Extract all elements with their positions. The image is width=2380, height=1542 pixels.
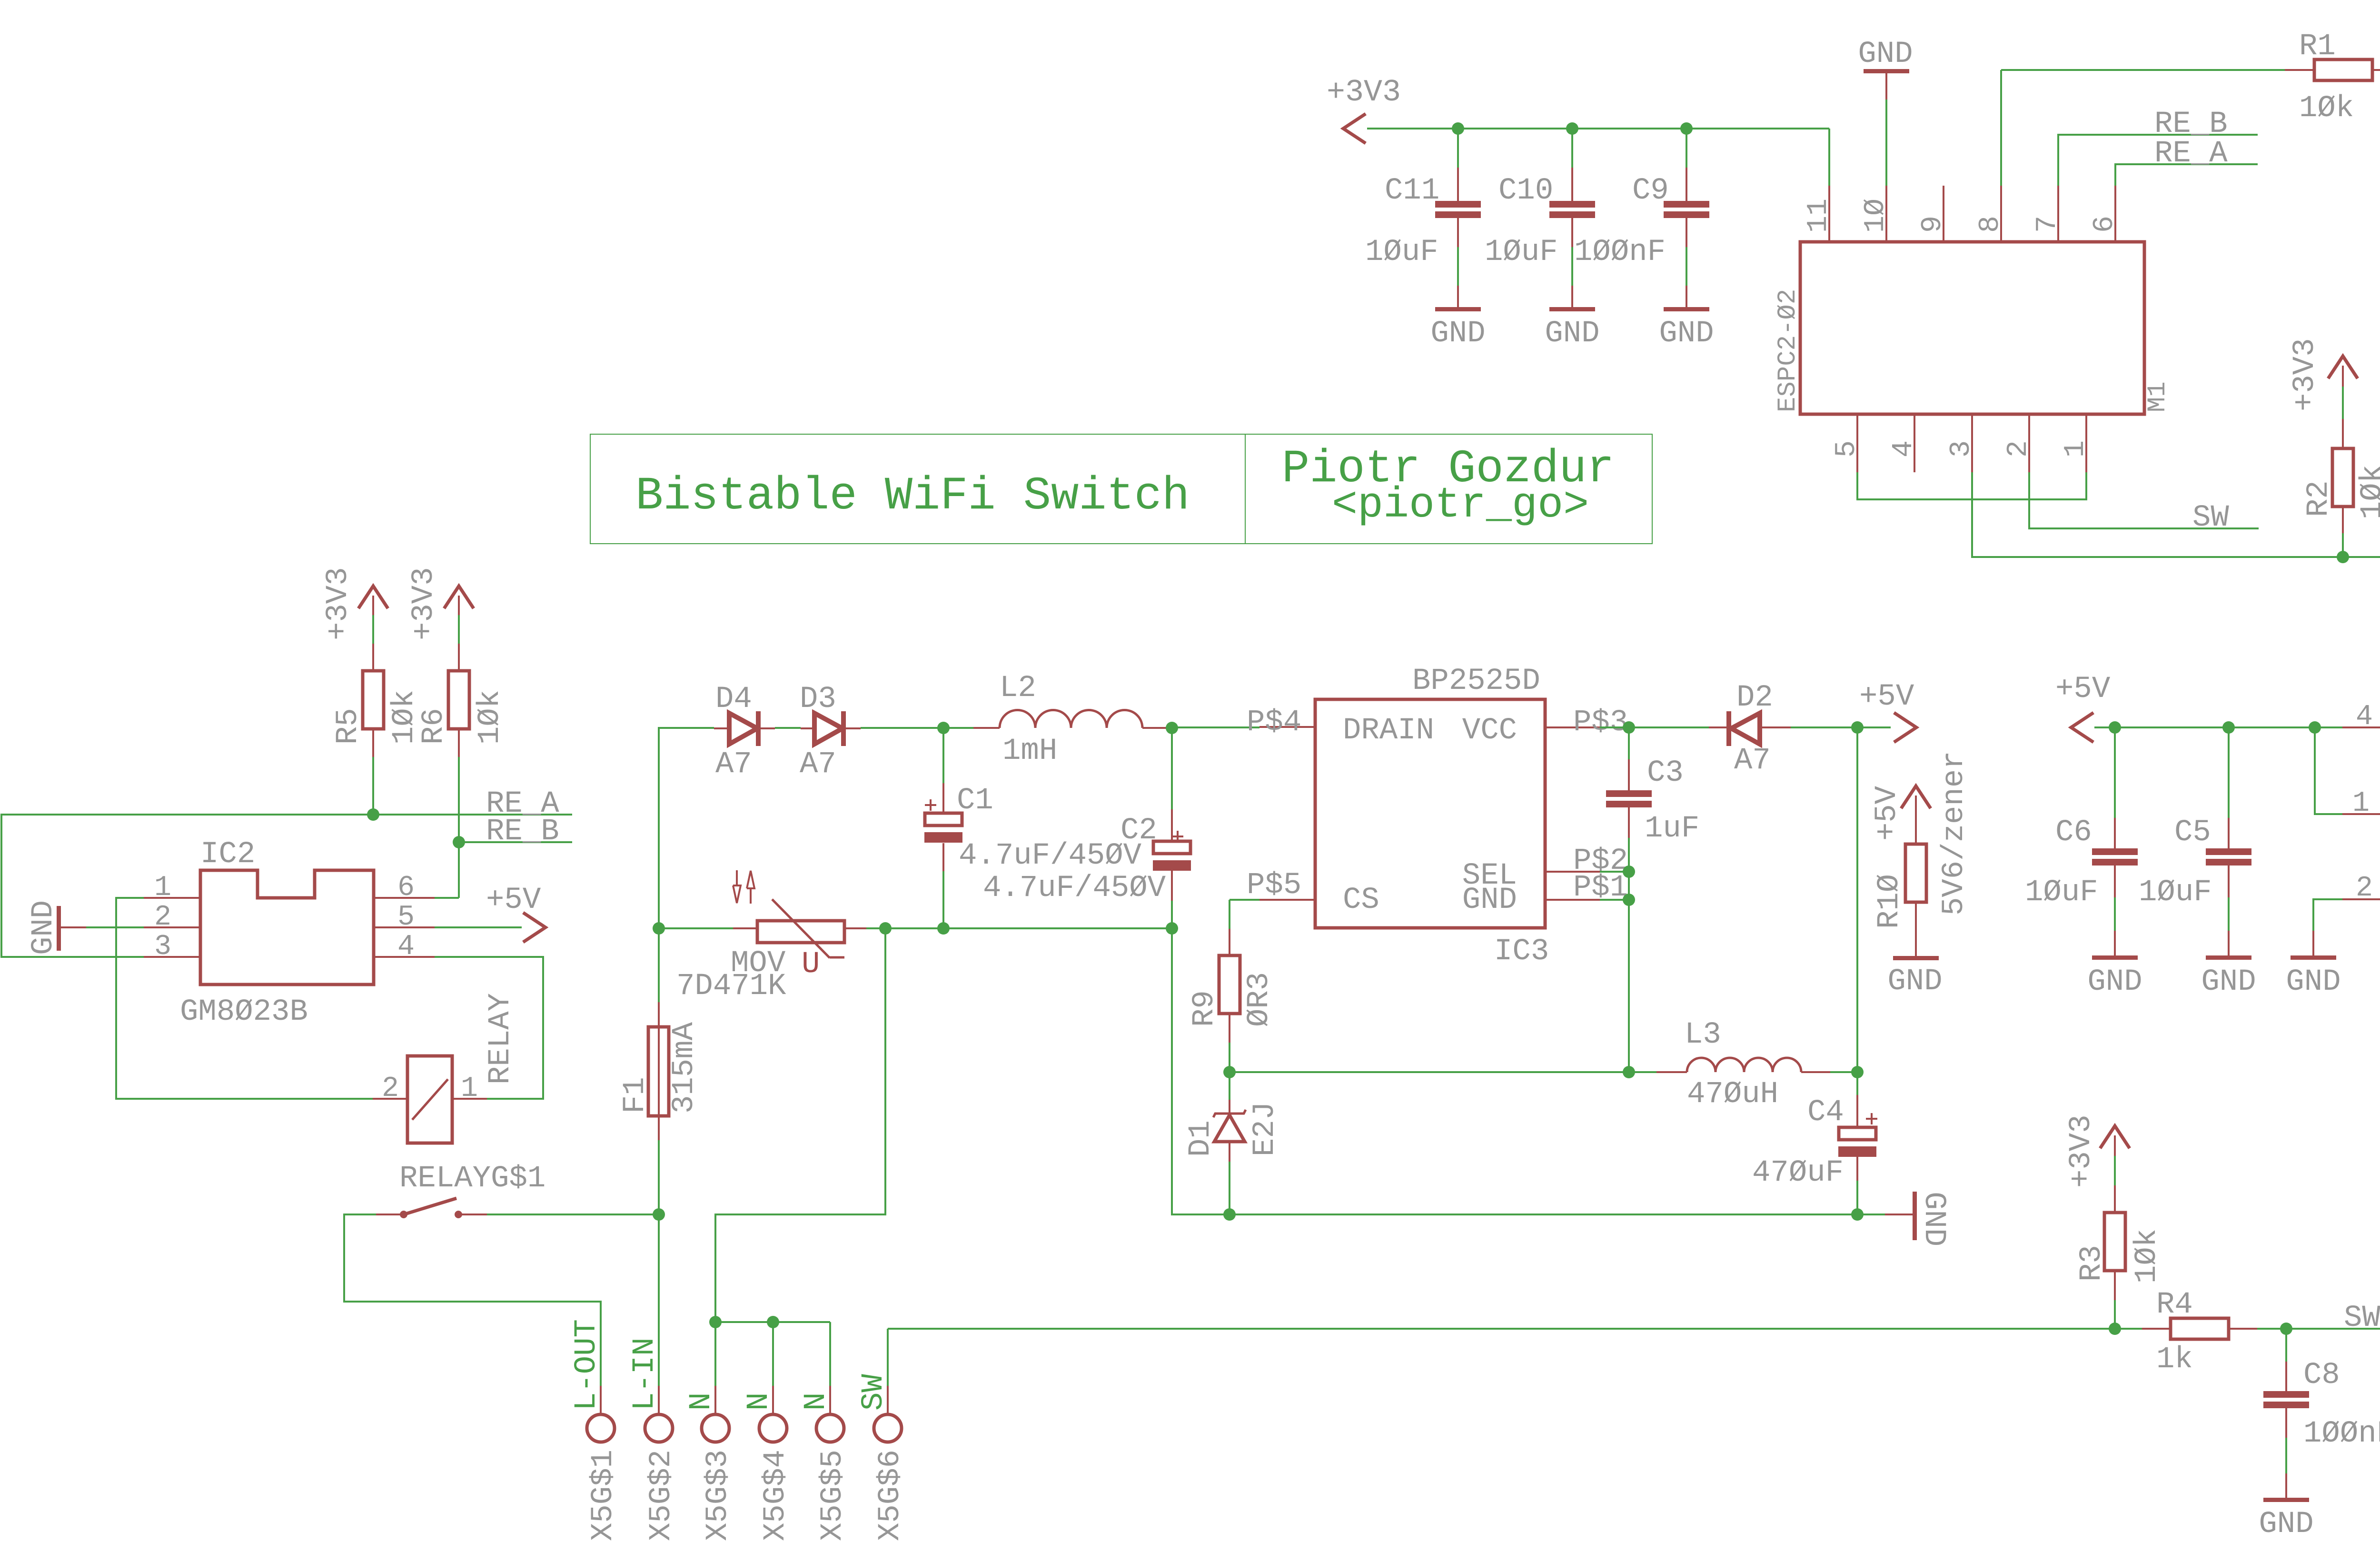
- svg-text:GND: GND: [1545, 317, 1599, 351]
- wire relay contact to F1: [487, 1214, 659, 1215]
- capacitor C10: [1485, 168, 1595, 269]
- wire CS to R9: [1230, 900, 1259, 929]
- pin 10 of M1: [1860, 186, 1892, 242]
- svg-text:1: 1: [461, 1073, 478, 1105]
- ground at IC1 pin2: [2286, 931, 2340, 999]
- svg-text:DRAIN: DRAIN: [1343, 714, 1434, 748]
- label RE_A: [486, 787, 559, 821]
- wire pin11 to +3V3 rail: [1828, 129, 1830, 186]
- wire: [86, 926, 144, 928]
- pin 11 of M1: [1803, 186, 1835, 242]
- label SW: [2344, 1301, 2380, 1335]
- svg-text:+3V3: +3V3: [407, 567, 441, 640]
- svg-text:C9: C9: [1632, 174, 1669, 208]
- ground under R10: [1887, 956, 1942, 999]
- wire: [1830, 1071, 1857, 1073]
- wire SHDN to rail: [2315, 727, 2342, 814]
- ground at IC2 pin2: [27, 900, 86, 955]
- svg-text:<piotr_go>: <piotr_go>: [1332, 481, 1589, 530]
- pin 8 of M1: [1974, 186, 2007, 242]
- wire: [2342, 387, 2344, 419]
- power symbol +3V3 above R3: [2064, 1114, 2130, 1188]
- module M1 ESPC2-02 body: [1774, 242, 2172, 414]
- wire: [1571, 129, 1573, 168]
- svg-text:1ØØnF: 1ØØnF: [1574, 235, 1666, 269]
- junction N1: [709, 1316, 722, 1328]
- pin 2 of M1: [2003, 414, 2035, 472]
- wire: [1457, 247, 1459, 286]
- junction C1 bottom: [937, 922, 950, 935]
- capacitor C1: [924, 728, 1142, 873]
- svg-text:7D471K: 7D471K: [676, 969, 786, 1004]
- svg-text:5: 5: [397, 901, 415, 934]
- svg-text:1: 1: [154, 872, 171, 904]
- svg-text:3: 3: [1945, 440, 1978, 458]
- svg-text:11: 11: [1803, 199, 1835, 233]
- svg-text:R5: R5: [331, 708, 366, 745]
- diode D4: [714, 682, 775, 782]
- wire pin2 to ground: [2313, 899, 2342, 931]
- svg-text:D2: D2: [1736, 681, 1773, 715]
- capacitor C4 470uF: [1752, 1072, 1877, 1190]
- svg-text:1ØuF: 1ØuF: [2025, 875, 2098, 910]
- svg-text:R4: R4: [2156, 1288, 2193, 1322]
- junction at C11: [1452, 122, 1464, 135]
- wire: [2114, 1156, 2116, 1185]
- svg-text:2: 2: [2003, 440, 2035, 458]
- wire GND return line: [1172, 928, 1885, 1214]
- pin 2 of IC2: [144, 901, 200, 934]
- capacitor C6 10uF: [2025, 727, 2138, 910]
- svg-text:X5G$3: X5G$3: [701, 1450, 735, 1541]
- svg-text:CS: CS: [1343, 883, 1379, 917]
- svg-text:L-OUT: L-OUT: [570, 1319, 604, 1411]
- svg-text:SW: SW: [2192, 501, 2229, 535]
- ground: [2087, 931, 2142, 999]
- power symbol +5V: [486, 883, 545, 942]
- svg-text:1mH: 1mH: [1002, 734, 1057, 768]
- junction R3 bottom: [2109, 1323, 2121, 1335]
- svg-text:1Ø: 1Ø: [1860, 199, 1892, 233]
- wire R1 rail: [2001, 69, 2285, 71]
- svg-text:C4: C4: [1807, 1095, 1844, 1130]
- wire: [861, 727, 973, 729]
- svg-text:3: 3: [154, 931, 171, 963]
- pin 6 of M1: [2089, 186, 2121, 242]
- diode D1 zener E2J: [1184, 1072, 1282, 1162]
- svg-text:+3V3: +3V3: [2288, 338, 2322, 411]
- junction SHDN drop: [2309, 721, 2321, 734]
- pin 1 SHDN: [2342, 787, 2380, 820]
- junction C3 top: [1623, 721, 1635, 734]
- wire: [372, 615, 374, 644]
- pin P$4 DRAIN: [1247, 706, 1315, 740]
- svg-text:1Øk: 1Øk: [2299, 91, 2354, 126]
- svg-text:6: 6: [2089, 216, 2121, 233]
- junction C2 top / P$4 node: [1166, 722, 1178, 734]
- svg-text:R9: R9: [1188, 990, 1222, 1027]
- author handle piotr_go: [1332, 481, 1589, 530]
- svg-text:GND: GND: [27, 900, 61, 955]
- svg-text:RELAY: RELAY: [484, 993, 518, 1084]
- wire pin5 to +5V: [435, 926, 522, 928]
- svg-text:GND: GND: [2087, 965, 2142, 999]
- svg-text:R2: R2: [2302, 480, 2336, 517]
- wire: [942, 871, 944, 928]
- svg-text:GND: GND: [1916, 1192, 1951, 1246]
- junction RE_A: [367, 808, 379, 821]
- connector pad X5G$1 net L-OUT: [570, 1319, 621, 1541]
- wire N drops: [715, 1322, 830, 1386]
- wire R6 down: [458, 757, 460, 898]
- junction C5: [2222, 721, 2235, 734]
- pin 9 of M1: [1917, 186, 1949, 242]
- svg-text:8: 8: [1974, 216, 2007, 233]
- svg-text:N: N: [799, 1393, 833, 1411]
- wire SEL stub: [1600, 871, 1629, 873]
- ground above pin10: [1858, 37, 1913, 99]
- wire RE_A to pin3: [1, 956, 144, 958]
- wire pin10 to ground: [1885, 99, 1887, 186]
- label RE_B: [486, 815, 559, 849]
- power symbol +5V left arrow: [2055, 672, 2111, 742]
- relay coil RELAY: [373, 993, 518, 1143]
- svg-text:2: 2: [154, 901, 171, 934]
- svg-text:D1: D1: [1184, 1120, 1218, 1157]
- svg-text:1k: 1k: [2156, 1343, 2193, 1377]
- wire: [1571, 247, 1573, 286]
- pin 2 GND: [2342, 872, 2380, 905]
- svg-text:ESPC2-Ø2: ESPC2-Ø2: [1774, 289, 1803, 412]
- wire: [659, 927, 733, 929]
- wire pin4 to relay: [435, 957, 543, 1099]
- ground: [1430, 286, 1485, 351]
- title text Bistable WiFi Switch: [635, 470, 1190, 523]
- svg-text:5V6/zener: 5V6/zener: [1937, 751, 1972, 915]
- resistor R2: [2302, 419, 2380, 533]
- svg-text:4: 4: [2356, 701, 2373, 733]
- label RE_B: [2154, 107, 2228, 141]
- wire: [1229, 1162, 1230, 1214]
- svg-text:R6: R6: [417, 708, 451, 745]
- junction N drop: [879, 922, 892, 935]
- power symbol +3V3 above R2: [2288, 338, 2358, 411]
- inductor L3: [1656, 1018, 1830, 1112]
- wire R5 to RE_A: [372, 757, 374, 815]
- svg-text:C10: C10: [1498, 174, 1553, 208]
- svg-text:D4: D4: [715, 682, 752, 716]
- ground at line end: [1885, 1192, 1951, 1246]
- svg-text:X5G$1: X5G$1: [586, 1450, 621, 1541]
- svg-text:C8: C8: [2303, 1358, 2340, 1393]
- svg-text:1Øk: 1Øk: [473, 690, 507, 745]
- wire +5V column: [1856, 727, 1858, 1072]
- svg-text:M1: M1: [2143, 381, 2172, 412]
- svg-text:GND: GND: [1858, 37, 1913, 71]
- wire relay contact to L-OUT: [344, 1214, 601, 1386]
- svg-text:N: N: [684, 1393, 719, 1411]
- svg-text:1Øk: 1Øk: [2130, 1229, 2164, 1283]
- ground: [1545, 286, 1599, 351]
- svg-text:+5V: +5V: [486, 883, 541, 917]
- svg-text:L-IN: L-IN: [628, 1337, 662, 1411]
- svg-text:6: 6: [397, 872, 415, 904]
- wire: [2342, 533, 2344, 557]
- pin 7 of M1: [2032, 186, 2064, 242]
- svg-text:RELAYG$1: RELAYG$1: [399, 1162, 545, 1196]
- pin 5 of M1: [1831, 414, 1863, 472]
- svg-text:+3V3: +3V3: [321, 567, 356, 640]
- diode D2 A7: [1709, 681, 1791, 778]
- pin 4 of IC2: [374, 931, 435, 963]
- wire pin1 to relay: [116, 898, 373, 1099]
- svg-text:315mA: 315mA: [667, 1022, 702, 1114]
- wire: [2228, 897, 2230, 931]
- author text Piotr Gozdur: [1282, 443, 1615, 496]
- junction C8 top: [2280, 1323, 2292, 1335]
- svg-text:VCC: VCC: [1462, 714, 1517, 748]
- svg-text:D3: D3: [800, 682, 836, 716]
- svg-text:4: 4: [397, 931, 415, 963]
- svg-text:A7: A7: [800, 747, 836, 782]
- power symbol +3V3 above R6: [407, 567, 474, 640]
- junction at C10: [1566, 122, 1578, 135]
- junction R9 bottom: [1223, 1066, 1236, 1078]
- wire: [775, 727, 801, 729]
- svg-text:GND: GND: [1462, 883, 1517, 917]
- wire RE_A net: [1, 815, 572, 957]
- wire: [458, 615, 460, 644]
- pin 4 of M1: [1888, 414, 1920, 472]
- svg-text:R1Ø: R1Ø: [1873, 874, 1907, 929]
- wire: [866, 927, 1172, 929]
- pin 1 of M1: [2060, 414, 2092, 472]
- wire pin3 to R2 node: [1972, 472, 2337, 557]
- svg-text:X5G$5: X5G$5: [816, 1450, 850, 1541]
- svg-text:ØR3: ØR3: [1242, 972, 1277, 1027]
- wire pin8 up: [2000, 70, 2002, 186]
- svg-text:GND: GND: [1887, 965, 1942, 999]
- IC U IC3 BP2525D body: [1315, 664, 1549, 969]
- svg-text:C5: C5: [2174, 816, 2211, 850]
- svg-text:SW: SW: [857, 1374, 891, 1411]
- IC U IC2 GM8023B body: [180, 837, 374, 1029]
- svg-text:GND: GND: [1659, 317, 1714, 351]
- power symbol +5V arrow: [1857, 680, 1916, 742]
- connector pad X5G$5 net N: [799, 1386, 850, 1541]
- wire: [1791, 726, 1857, 728]
- junction D1 bottom: [1223, 1208, 1236, 1221]
- svg-text:2: 2: [2356, 872, 2373, 905]
- diode D3: [800, 682, 861, 782]
- svg-text:C2: C2: [1121, 814, 1157, 848]
- svg-text:47ØuH: 47ØuH: [1687, 1077, 1778, 1112]
- wire C3 bottom to L3 node: [1628, 838, 1630, 1072]
- svg-text:P$3: P$3: [1573, 706, 1628, 740]
- svg-text:+3V3: +3V3: [2064, 1114, 2099, 1188]
- resistor R4 1k: [2142, 1288, 2257, 1377]
- wire: [2114, 1300, 2116, 1329]
- resistor R10 5V6 zener: [1870, 751, 1972, 956]
- junction +5V node: [1851, 721, 1864, 734]
- svg-text:R3: R3: [2075, 1245, 2109, 1282]
- svg-text:BP2525D: BP2525D: [1412, 664, 1540, 698]
- svg-text:L3: L3: [1685, 1018, 1721, 1052]
- junction F1 bottom: [653, 1208, 665, 1221]
- svg-text:X5G$4: X5G$4: [759, 1450, 793, 1541]
- svg-text:1ØuF: 1ØuF: [2139, 875, 2212, 910]
- svg-text:1ØuF: 1ØuF: [1485, 235, 1558, 269]
- pin 3 of M1: [1945, 414, 1978, 472]
- svg-text:1: 1: [2060, 440, 2092, 458]
- svg-text:P$4: P$4: [1247, 706, 1301, 740]
- pin P$2 SEL: [1545, 844, 1628, 878]
- power symbol +3V3: [1327, 75, 1401, 143]
- pin 4 VIN: [2342, 701, 2380, 733]
- wire: [1457, 129, 1459, 168]
- wire: [1686, 247, 1687, 286]
- svg-text:9: 9: [1917, 216, 1949, 233]
- svg-text:C3: C3: [1647, 756, 1684, 790]
- switch RELAYG$1 contact: [376, 1198, 487, 1218]
- junction N2: [767, 1316, 779, 1328]
- svg-text:X5G$6: X5G$6: [873, 1450, 908, 1541]
- svg-text:2: 2: [382, 1073, 399, 1105]
- svg-text:4.7uF/45ØV: 4.7uF/45ØV: [983, 871, 1166, 905]
- junction P$2: [1623, 866, 1635, 878]
- svg-text:1ØuF: 1ØuF: [1365, 235, 1438, 269]
- wire: [1229, 1043, 1230, 1072]
- svg-text:4.7uF/45ØV: 4.7uF/45ØV: [959, 839, 1142, 873]
- pin P$3 VCC: [1545, 706, 1628, 740]
- svg-text:GND: GND: [2286, 965, 2340, 999]
- wire pin6 to R6: [435, 897, 459, 899]
- svg-text:47ØuF: 47ØuF: [1752, 1156, 1844, 1190]
- ground under C8: [2259, 1473, 2313, 1542]
- svg-text:5: 5: [1831, 440, 1863, 458]
- pin 3 of IC2: [144, 931, 200, 963]
- svg-text:GND: GND: [1430, 317, 1485, 351]
- svg-text:E2J: E2J: [1248, 1102, 1282, 1156]
- wire pin5 to pin1: [1857, 472, 2086, 499]
- resistor R5: [331, 644, 422, 757]
- wire top rail left: [659, 728, 714, 928]
- connector pad X5G$6 net SW: [857, 1374, 908, 1541]
- capacitor C5 10uF: [2139, 727, 2251, 910]
- capacitor C9: [1574, 168, 1709, 269]
- svg-text:Bistable WiFi Switch: Bistable WiFi Switch: [635, 470, 1190, 523]
- svg-text:+5V: +5V: [1859, 680, 1914, 714]
- svg-text:SW: SW: [2344, 1301, 2380, 1335]
- svg-text:F1: F1: [618, 1077, 653, 1114]
- svg-text:IC3: IC3: [1494, 935, 1549, 969]
- svg-text:GND: GND: [2259, 1507, 2313, 1542]
- svg-text:X5G$2: X5G$2: [645, 1450, 679, 1541]
- svg-text:4: 4: [1888, 440, 1920, 458]
- fuse F1 315mA: [618, 928, 702, 1140]
- resistor R3 10k: [2075, 1185, 2164, 1300]
- inductor L2: [973, 671, 1172, 768]
- capacitor C11: [1365, 168, 1481, 269]
- power symbol +3V3 above R5: [321, 567, 388, 640]
- connector pad X5G$2 net L-IN: [628, 1337, 679, 1541]
- wire SW drop to connector: [887, 1329, 889, 1386]
- wire: [1171, 901, 1173, 928]
- wire VCC rail: [1600, 726, 1709, 728]
- label RELAYG$1: [399, 1162, 545, 1196]
- junction L3 right: [1851, 1066, 1864, 1078]
- svg-text:R1: R1: [2299, 30, 2336, 64]
- wire RE_B from pin7: [2058, 135, 2258, 186]
- label RE_A: [2154, 137, 2228, 171]
- wire: [1686, 129, 1687, 168]
- capacitor C8 100nF: [2263, 1329, 2380, 1451]
- pin P$1 GND: [1545, 871, 1628, 905]
- pin 6 of IC2: [374, 872, 435, 904]
- svg-text:IC2: IC2: [200, 837, 255, 872]
- junction R2 bottom: [2337, 551, 2349, 563]
- svg-text:1Øk: 1Øk: [2356, 465, 2380, 519]
- junction C4 bottom: [1851, 1208, 1864, 1221]
- junction RE_B: [453, 836, 465, 848]
- resistor R9: [1188, 929, 1277, 1043]
- svg-text:GND: GND: [2201, 965, 2256, 999]
- junction MOV line left: [653, 922, 665, 935]
- svg-text:RE_A: RE_A: [2154, 137, 2228, 171]
- wire SW rail: [888, 1328, 2142, 1330]
- junction C2 bottom: [1166, 922, 1178, 935]
- resistor R6: [417, 644, 507, 757]
- svg-text:A7: A7: [1734, 744, 1771, 778]
- wire R9 to L3: [1230, 1071, 1656, 1073]
- wire RE_A from pin6: [2115, 164, 2258, 186]
- wire RE_B net: [459, 841, 572, 843]
- wire: [2257, 1328, 2380, 1330]
- svg-text:P$5: P$5: [1247, 868, 1301, 903]
- svg-text:GM8Ø23B: GM8Ø23B: [180, 995, 308, 1029]
- svg-text:RE_B: RE_B: [486, 815, 559, 849]
- connector pad X5G$4 net N: [742, 1386, 793, 1541]
- wire F1 to L-IN: [658, 1140, 660, 1386]
- varistor MOV 7D471K: [676, 870, 867, 1004]
- wire +5V rail: [2094, 726, 2342, 728]
- svg-text:C6: C6: [2055, 816, 2092, 850]
- wire pin2 SW net: [2029, 472, 2259, 528]
- wire +3V3 rail: [1367, 128, 1829, 129]
- svg-text:A7: A7: [715, 747, 752, 782]
- junction at C9: [1680, 122, 1693, 135]
- title block frame: [590, 434, 1652, 544]
- ground: [2201, 931, 2256, 999]
- junction P$1: [1623, 894, 1635, 906]
- wire: [2285, 1438, 2287, 1473]
- pin 5 of IC2: [374, 901, 435, 934]
- connector pad X5G$3 net N: [684, 1386, 735, 1541]
- resistor R1: [2285, 30, 2380, 126]
- wire: [2114, 897, 2116, 931]
- svg-text:+5V: +5V: [1870, 786, 1904, 841]
- junction C1 top: [937, 722, 950, 734]
- wire GND stub: [1600, 899, 1629, 901]
- capacitor C2: [983, 728, 1191, 905]
- svg-text:1ØØnF: 1ØØnF: [2303, 1417, 2380, 1451]
- svg-text:L2: L2: [1000, 671, 1036, 706]
- wire N feed: [715, 928, 885, 1322]
- wire: [2343, 556, 2380, 558]
- svg-text:C1: C1: [957, 784, 993, 818]
- svg-text:7: 7: [2032, 216, 2064, 233]
- svg-text:+5V: +5V: [2055, 672, 2111, 706]
